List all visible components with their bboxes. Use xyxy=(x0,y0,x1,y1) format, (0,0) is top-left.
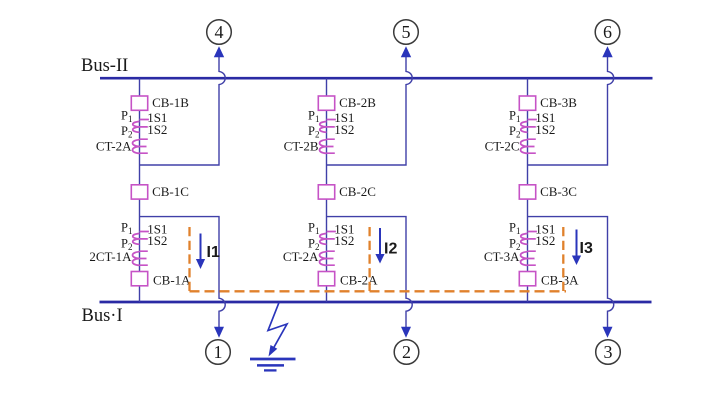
svg-text:3: 3 xyxy=(604,342,613,362)
terminal circle 2 xyxy=(394,340,419,365)
svg-text:1S2: 1S2 xyxy=(535,122,555,137)
wire bay 3 main string (Bus-II to Bus-I) xyxy=(527,78,529,302)
circuit breaker CB-3A xyxy=(519,272,579,288)
terminal circle 1 xyxy=(206,340,231,365)
current arrow I2 xyxy=(375,228,384,264)
arrow feeder 5 (up) xyxy=(401,46,411,57)
current transformer CT-2B (upper) xyxy=(320,120,336,154)
arrow feeder 1 (down) xyxy=(214,327,224,338)
svg-text:1: 1 xyxy=(214,342,223,362)
svg-text:CB-3A: CB-3A xyxy=(541,272,579,287)
ground symbol xyxy=(250,359,296,370)
wire feeder 1: node N2 down past Bus-I (jump, no connection) xyxy=(140,217,226,328)
fault current path: dashed branch I2 xyxy=(368,227,370,291)
circuit breaker CB-1A xyxy=(131,272,191,288)
svg-text:I3: I3 xyxy=(580,240,593,257)
arrow feeder 6 (up) xyxy=(602,46,612,57)
wire feeder 5: node N1 up past Bus-II (jump, no connection) xyxy=(327,55,413,165)
svg-text:CT-2C: CT-2C xyxy=(485,138,520,153)
wire feeder 4: node N1 up past Bus-II (jump, no connection) xyxy=(140,55,226,165)
bus Bus-I xyxy=(100,301,652,304)
arrow feeder 3 (down) xyxy=(603,327,613,338)
wire bay 2 main string (Bus-II to Bus-I) xyxy=(326,78,328,302)
svg-text:1S2: 1S2 xyxy=(535,233,555,248)
wire bay 1 main string (Bus-II to Bus-I) xyxy=(139,78,141,302)
svg-text:CB-2A: CB-2A xyxy=(340,272,378,287)
svg-text:CB-1A: CB-1A xyxy=(153,272,191,287)
circuit breaker CB-3C xyxy=(519,184,577,199)
svg-text:CB-1C: CB-1C xyxy=(152,184,189,199)
terminal circle 6 xyxy=(595,20,620,45)
svg-text:4: 4 xyxy=(215,22,224,42)
svg-text:I1: I1 xyxy=(207,244,220,261)
svg-text:CB-3B: CB-3B xyxy=(540,95,577,110)
terminal circle 4 xyxy=(207,20,232,45)
current transformer CT-2A (upper) xyxy=(133,120,149,154)
terminal circle 3 xyxy=(596,340,621,365)
svg-text:2CT-1A: 2CT-1A xyxy=(89,249,132,264)
current transformer CT-3A (lower) xyxy=(521,232,537,266)
circuit breaker CB-2B xyxy=(318,95,376,110)
current arrow I3 xyxy=(572,230,581,266)
svg-text:5: 5 xyxy=(402,22,411,42)
circuit breaker CB-2C xyxy=(318,184,376,199)
terminal circle 5 xyxy=(394,20,419,45)
wire feeder 3: node N2 down past Bus-I (jump, no connection) xyxy=(528,217,614,328)
fault current path: dashed trace along Bus-I xyxy=(190,290,567,292)
svg-text:Bus-II: Bus-II xyxy=(81,56,128,76)
current transformer CT-2C (upper) xyxy=(521,120,537,154)
fault lightning bolt on Bus-I xyxy=(268,303,287,357)
circuit breaker CB-1C xyxy=(131,184,189,199)
wire feeder 2: node N2 down past Bus-I (jump, no connection) xyxy=(327,217,413,328)
circuit breaker CB-3B xyxy=(519,95,577,110)
svg-text:1S2: 1S2 xyxy=(334,122,354,137)
arrow feeder 4 (up) xyxy=(214,46,224,57)
current transformer 2CT-1A (lower) xyxy=(133,232,149,266)
current transformer CT-2A (lower) xyxy=(320,232,336,266)
wire feeder 6: node N1 up past Bus-II (jump, no connection) xyxy=(528,55,614,165)
svg-text:6: 6 xyxy=(603,22,612,42)
svg-text:CB-2C: CB-2C xyxy=(339,184,376,199)
svg-text:Bus·I: Bus·I xyxy=(82,306,123,326)
svg-text:1S2: 1S2 xyxy=(147,233,167,248)
svg-text:P1: P1 xyxy=(121,220,132,236)
svg-text:CT-2A: CT-2A xyxy=(96,138,132,153)
bus Bus-II xyxy=(100,77,653,80)
svg-text:1S2: 1S2 xyxy=(334,233,354,248)
circuit breaker CB-1B xyxy=(131,95,189,110)
svg-text:1S2: 1S2 xyxy=(147,122,167,137)
fault current path: dashed branch I3 xyxy=(562,227,564,291)
svg-text:CB-2B: CB-2B xyxy=(339,95,376,110)
svg-text:CT-3A: CT-3A xyxy=(484,249,520,264)
svg-text:P1: P1 xyxy=(509,220,520,236)
fault current path: dashed branch I1 xyxy=(188,227,190,291)
svg-text:CT-2B: CT-2B xyxy=(284,138,319,153)
circuit breaker CB-2A xyxy=(318,272,378,288)
svg-text:CB-3C: CB-3C xyxy=(540,184,577,199)
svg-text:CT-2A: CT-2A xyxy=(283,249,319,264)
svg-text:CB-1B: CB-1B xyxy=(152,95,189,110)
arrow feeder 2 (down) xyxy=(401,327,411,338)
svg-text:2: 2 xyxy=(402,342,411,362)
svg-text:P1: P1 xyxy=(308,220,319,236)
current arrow I1 xyxy=(196,234,205,270)
svg-text:I2: I2 xyxy=(384,241,397,258)
